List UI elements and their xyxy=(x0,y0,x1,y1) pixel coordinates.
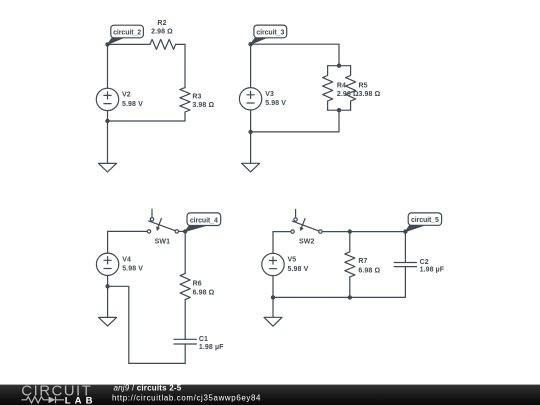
svg-text:R7: R7 xyxy=(358,258,367,265)
voltage source V5 xyxy=(262,253,284,275)
wire: circuit_4 left return xyxy=(108,286,129,363)
wire: circuit_5 ground stub xyxy=(272,297,274,317)
ground (circuit_4) xyxy=(99,317,117,326)
wire: circuit_4 right vertical to R6 xyxy=(184,231,186,273)
svg-text:R3: R3 xyxy=(192,94,201,101)
wire: V4 top lead xyxy=(108,231,148,253)
node: circuit_5 V5- junction xyxy=(271,295,275,299)
voltage source V4 xyxy=(96,253,118,275)
svg-text:circuit_4: circuit_4 xyxy=(190,217,218,224)
svg-text:3.98 Ω: 3.98 Ω xyxy=(359,91,381,98)
svg-text:6.98 Ω: 6.98 Ω xyxy=(358,267,380,274)
svg-text:5.98 V: 5.98 V xyxy=(122,101,143,108)
svg-text:1.98 µF: 1.98 µF xyxy=(420,267,445,274)
svg-text:http://circuitlab.com/cj35awwp: http://circuitlab.com/cj35awwp6ey84 xyxy=(112,393,261,402)
node flag circuit_3 tail xyxy=(251,37,267,44)
svg-text:SW1: SW1 xyxy=(155,239,170,246)
svg-text:V2: V2 xyxy=(122,91,131,98)
ground (circuit_5) xyxy=(264,317,282,326)
node: circuit_5 flag node xyxy=(403,229,407,233)
wire: R7 bottom lead xyxy=(349,277,351,297)
svg-text:V5: V5 xyxy=(288,257,297,264)
node flag circuit_2 box xyxy=(111,25,144,38)
wire: V2 bottom lead xyxy=(107,111,109,121)
svg-text:2.98 Ω: 2.98 Ω xyxy=(151,29,173,36)
wire: R7 top lead xyxy=(349,232,351,252)
node: circuit_2 bottom junction xyxy=(105,119,109,123)
wire: circuit_4 ground stub xyxy=(107,286,109,317)
wire: circuit_3 right drop to parallel pair xyxy=(338,44,340,65)
wire: circuit_2 top horizontal segments xyxy=(108,43,186,45)
voltage source V2 xyxy=(96,88,118,110)
svg-text:C2: C2 xyxy=(420,259,429,266)
node: circuit_4 V4- junction xyxy=(105,284,109,288)
wire: R6 to C1 xyxy=(184,300,186,340)
capacitor C2 xyxy=(394,263,416,267)
wire: V3 top lead xyxy=(250,44,252,87)
wire: circuit_2 left vertical V2 top lead xyxy=(107,44,109,88)
wire: V4 bottom lead xyxy=(107,276,109,287)
svg-text:3.98 Ω: 3.98 Ω xyxy=(192,102,214,109)
node flag circuit_5 tail xyxy=(405,225,424,232)
svg-text:C1: C1 xyxy=(199,336,208,343)
wire: circuit_3 ground stub xyxy=(250,132,252,163)
wire: circuit_3 bottom horizontal xyxy=(251,131,339,133)
node: R7 bottom junction xyxy=(348,295,352,299)
wire: V5 bottom lead xyxy=(272,276,274,298)
switch SW1 toggle arrow xyxy=(158,218,161,226)
wire: circuit_2 right vertical (top) xyxy=(184,44,186,87)
node flag circuit_2 tail xyxy=(108,37,124,44)
wire: C2 bottom lead xyxy=(404,267,406,298)
svg-text:5.98 V: 5.98 V xyxy=(265,100,286,107)
ground (circuit_2) xyxy=(99,163,117,172)
switch SW1 lever xyxy=(149,221,176,231)
node: parallel top junction xyxy=(337,63,341,67)
svg-text:anj9 / circuits 2-5: anj9 / circuits 2-5 xyxy=(114,384,182,393)
wire: V5 top lead xyxy=(273,232,291,254)
svg-text:circuit_2: circuit_2 xyxy=(113,30,141,37)
wire: circuit_2 right vertical (bottom) xyxy=(184,112,186,121)
svg-text:V3: V3 xyxy=(265,91,274,98)
wire: C2 top lead xyxy=(404,232,406,263)
svg-text:2.98 Ω: 2.98 Ω xyxy=(337,91,359,98)
resistor R6 xyxy=(180,273,190,299)
svg-text:R5: R5 xyxy=(359,83,368,90)
svg-text:R6: R6 xyxy=(193,280,202,287)
wire: circuit_4 bottom horizontal xyxy=(129,362,185,364)
wire: circuit_2 bottom horizontal xyxy=(108,120,186,122)
svg-text:1.98 µF: 1.98 µF xyxy=(199,344,224,351)
node: R7 top junction xyxy=(348,229,352,233)
svg-text:circuit_5: circuit_5 xyxy=(411,217,439,224)
wire: SW2 to C2 node xyxy=(322,231,405,233)
svg-text:R2: R2 xyxy=(157,20,166,27)
switch SW2 contacts xyxy=(291,218,322,234)
resistor R7 xyxy=(345,252,355,277)
switch SW2 top throw stub xyxy=(295,209,297,217)
wire: circuit_3 top horizontal xyxy=(251,43,339,45)
wire: circuit_3 right drop to bottom xyxy=(338,110,340,132)
resistor R2 xyxy=(150,39,176,49)
switch SW1 contacts xyxy=(147,218,178,233)
svg-text:5.98 V: 5.98 V xyxy=(288,266,309,273)
switch SW1 top throw stub xyxy=(151,209,153,217)
svg-text:SW2: SW2 xyxy=(299,239,314,246)
svg-text:6.98 Ω: 6.98 Ω xyxy=(193,290,215,297)
node: circuit_3 bottom junction xyxy=(248,130,252,134)
node flag circuit_3 box xyxy=(254,25,287,38)
wire: C1 to bottom xyxy=(184,344,186,363)
svg-text:circuit_3: circuit_3 xyxy=(256,30,284,37)
node flag circuit_4 box xyxy=(187,213,221,226)
node: parallel bottom junction xyxy=(337,108,341,112)
resistor R3 xyxy=(180,88,190,112)
node flag circuit_4 tail xyxy=(185,225,206,231)
resistor R4 xyxy=(323,66,333,111)
svg-text:R4: R4 xyxy=(337,83,346,90)
node: circuit_4 flag node xyxy=(183,229,187,233)
svg-text:LAB: LAB xyxy=(65,395,97,405)
svg-text:5.98 V: 5.98 V xyxy=(122,266,143,273)
wire: V3 bottom lead xyxy=(250,110,252,132)
switch SW2 toggle arrow xyxy=(302,219,305,227)
wire: SW1 to node xyxy=(179,230,186,232)
voltage source V3 xyxy=(239,88,261,110)
capacitor C1 xyxy=(174,339,196,344)
svg-text:V4: V4 xyxy=(122,256,131,263)
wire: circuit_5 bottom horizontal xyxy=(273,296,405,298)
wire: circuit_2 ground stub xyxy=(107,121,109,163)
switch SW2 lever xyxy=(292,221,319,231)
node: circuit_2 flag node xyxy=(105,42,109,46)
resistor R5 xyxy=(346,66,356,111)
logo schematic wire with resistor and diode xyxy=(22,396,65,403)
ground (circuit_3) xyxy=(242,163,260,172)
wire: parallel bottom bar xyxy=(328,109,351,111)
node: circuit_3 flag node xyxy=(248,42,252,46)
node flag circuit_5 box xyxy=(408,213,441,225)
wire: parallel top bar xyxy=(328,65,351,67)
